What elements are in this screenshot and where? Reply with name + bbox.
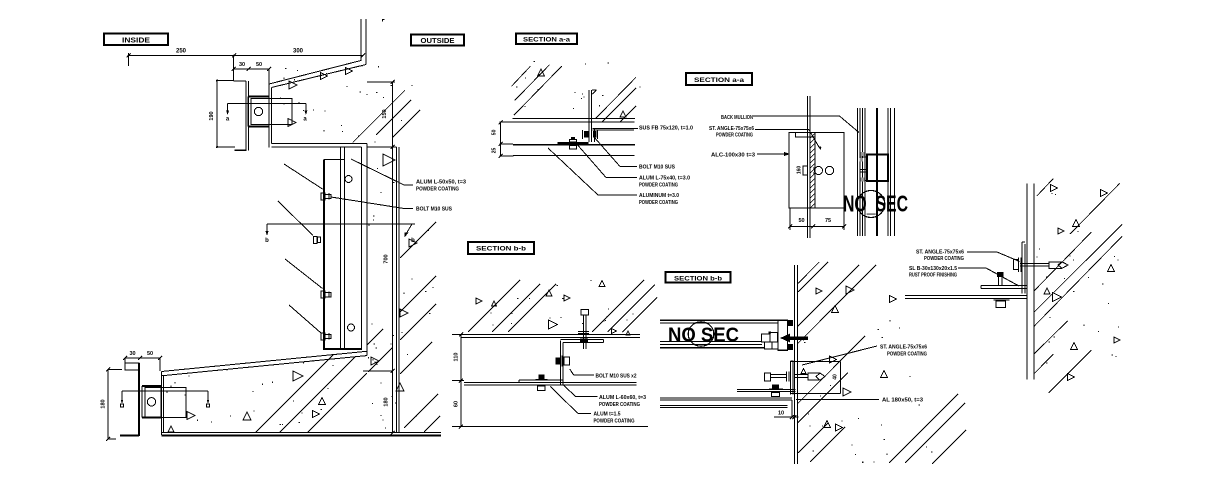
svg-text:BACK MULLION: BACK MULLION <box>721 115 753 121</box>
sloped soffit line <box>161 351 366 376</box>
svg-text:75: 75 <box>825 218 831 224</box>
label ALUM L-75 <box>639 176 690 189</box>
hanger plate a-a <box>589 90 597 142</box>
svg-text:ALC-100x30 t=3: ALC-100x30 t=3 <box>711 153 755 159</box>
svg-text:180: 180 <box>101 399 107 408</box>
sheet fr <box>905 295 1027 298</box>
slab line b-b <box>461 335 640 338</box>
leader SUS FB <box>596 128 637 130</box>
vertical dimension 150/700/180 right <box>363 80 395 435</box>
hatch wall bb <box>798 262 966 464</box>
svg-text:SECTION a-a: SECTION a-a <box>694 77 744 84</box>
section cut a-a top <box>226 104 308 123</box>
section cut b-b line <box>265 224 415 244</box>
svg-text:50: 50 <box>798 218 804 224</box>
panel frame <box>272 144 367 356</box>
hatch wall fr <box>1034 179 1122 393</box>
lower sheet b-b <box>464 383 637 386</box>
leader ALUM L-60 <box>563 385 597 397</box>
svg-text:50: 50 <box>492 129 498 135</box>
svg-text:ALUM L-60x60, t=3: ALUM L-60x60, t=3 <box>599 395 646 401</box>
bolt M10 panel 1 <box>321 193 331 200</box>
svg-text:OUTSIDE: OUTSIDE <box>421 38 455 45</box>
label ALUMINUM <box>639 193 679 206</box>
bottom slab line <box>161 433 441 436</box>
label box INSIDE <box>104 34 168 46</box>
fascia lines bb <box>660 342 765 348</box>
dimension 250/300 <box>127 49 366 67</box>
bottom bracket <box>142 386 186 418</box>
NO_SEC ellipse 2 <box>688 322 714 346</box>
sheet bolt b-b <box>536 375 548 391</box>
lower bracket bb <box>737 385 795 397</box>
top break mark <box>382 19 385 22</box>
label ST ANGLE fr <box>916 250 964 263</box>
dim 50/75 plan <box>788 208 846 230</box>
svg-text:30: 30 <box>239 62 245 68</box>
black arrow bb <box>780 334 808 343</box>
svg-text:POWDER COATING: POWDER COATING <box>594 419 635 425</box>
svg-text:ALUM L-50x50, t=3: ALUM L-50x50, t=3 <box>416 180 466 186</box>
fr triangles <box>1044 185 1120 381</box>
bottom line b-b <box>461 426 648 428</box>
dimension 30/50 bottom <box>123 351 162 371</box>
angle plate plan <box>789 133 844 209</box>
svg-text:b: b <box>265 238 269 244</box>
svg-text:10: 10 <box>778 411 784 417</box>
dots slab a-a <box>516 61 640 109</box>
svg-text:NO_SEC: NO_SEC <box>843 191 908 217</box>
svg-text:SECTION b-b: SECTION b-b <box>476 246 526 253</box>
label SL B-30 fr <box>909 266 957 279</box>
svg-text:AL 180x50, t=3: AL 180x50, t=3 <box>882 398 923 404</box>
clip triangle bottom bracket <box>187 412 195 420</box>
hanger bolt b-b <box>578 310 589 350</box>
dim 10 bb <box>774 400 799 419</box>
label SUS FB <box>639 126 693 132</box>
post bolt b-b <box>556 356 570 367</box>
vertical dim 110/60 <box>452 333 464 429</box>
label BOLT M10 a-a <box>639 165 675 171</box>
label ALC <box>711 153 755 159</box>
bolt plan <box>803 166 834 175</box>
label box SECTION b-b 1 <box>468 242 534 254</box>
svg-text:POWDER COATING: POWDER COATING <box>416 187 459 193</box>
slab soffit line a-a <box>513 118 635 120</box>
interior board top <box>234 56 249 151</box>
leader ALUM t15 <box>550 387 591 414</box>
wall bb triangles <box>801 286 897 431</box>
panel hatch strip <box>735 133 885 208</box>
svg-text:SECTION a-a: SECTION a-a <box>523 37 570 44</box>
svg-text:POWDER COATING: POWDER COATING <box>924 256 964 262</box>
fascia top bb <box>660 320 778 323</box>
svg-text:SUS FB 75x120, t=1.0: SUS FB 75x120, t=1.0 <box>639 126 693 132</box>
svg-text:POWDER COATING: POWDER COATING <box>716 133 753 139</box>
soffit triangles <box>168 371 326 432</box>
svg-text:110: 110 <box>454 353 460 362</box>
coping triangles <box>321 68 353 80</box>
upper bolt fr <box>997 272 1004 286</box>
leader ALUM L-75 <box>575 142 637 178</box>
svg-text:50: 50 <box>147 351 153 357</box>
label AL 180 <box>882 398 923 404</box>
svg-text:POWDER COATING: POWDER COATING <box>639 183 678 189</box>
concrete dots parapet <box>280 65 413 142</box>
sheets bb <box>660 398 792 408</box>
wall triangles 2 <box>371 239 417 391</box>
circle hole upper <box>345 176 352 183</box>
svg-text:40: 40 <box>833 374 839 380</box>
svg-text:160: 160 <box>797 166 803 175</box>
svg-text:300: 300 <box>293 49 304 55</box>
bolt M10 panel 3 <box>321 291 331 298</box>
svg-text:BOLT M10 SUS: BOLT M10 SUS <box>416 207 452 213</box>
label ST ANGLE aa <box>709 126 754 139</box>
svg-text:BOLT M10 SUS: BOLT M10 SUS <box>639 165 675 171</box>
label ALUM L-60 <box>599 395 646 408</box>
label ST ANGLE bb <box>880 345 927 358</box>
clip triangle under coping <box>289 81 297 89</box>
svg-text:POWDER COATING: POWDER COATING <box>887 352 927 358</box>
label box OUTSIDE <box>411 35 464 46</box>
wall lines bb <box>794 265 797 464</box>
leader ST ANGLE fr <box>967 252 1020 262</box>
fascia verticals <box>269 84 272 148</box>
wall lines fr <box>1027 184 1034 380</box>
slab triangles a-a <box>538 69 627 117</box>
svg-text:60: 60 <box>454 401 460 407</box>
label BOLT M10 SUS left <box>331 197 452 213</box>
sheet top line a-a <box>500 121 635 123</box>
circle hole lower <box>348 324 355 331</box>
bolt leader lines <box>278 164 323 333</box>
leader ALUMINUM <box>548 148 637 195</box>
leader BACK MULLION <box>753 116 859 133</box>
dimension 30/50 top <box>232 62 272 84</box>
NO_SEC text 1 <box>843 191 908 217</box>
svg-text:25: 25 <box>492 148 498 154</box>
leader AL 180 <box>796 398 879 400</box>
svg-text:ST. ANGLE-75x75x6: ST. ANGLE-75x75x6 <box>709 126 754 132</box>
svg-text:BOLT M10 SUS x2: BOLT M10 SUS x2 <box>596 373 637 379</box>
svg-text:30: 30 <box>129 351 135 357</box>
soffit left edge <box>161 372 163 436</box>
concrete dots soffit <box>167 357 376 425</box>
leader SL B-30 fr <box>958 268 1019 286</box>
leader ST ANGLE bb <box>802 346 877 365</box>
clip triangle top bracket <box>288 119 296 127</box>
leader BOLT x2 <box>570 369 594 375</box>
svg-text:50: 50 <box>256 62 262 68</box>
coping <box>269 19 366 88</box>
label ALUM t15 <box>594 412 635 425</box>
NO_SEC text 2 <box>668 325 739 347</box>
hatch slab b-b <box>468 280 657 332</box>
svg-text:700: 700 <box>384 254 390 263</box>
section cut a-a bottom <box>121 391 210 407</box>
top bracket <box>248 97 292 127</box>
dots slab b-b <box>491 280 634 326</box>
label box SECTION b-b 2 <box>666 272 731 283</box>
svg-text:SL B-30x130x20x1.5: SL B-30x130x20x1.5 <box>909 266 957 272</box>
anchor plate fr <box>1022 242 1025 294</box>
nut below fr <box>994 300 1010 308</box>
svg-text:180: 180 <box>384 397 390 406</box>
bolt angle a-a <box>569 137 576 149</box>
leader ST ANGLE aa <box>755 130 822 150</box>
bolt M10 panel 2 (small) <box>314 236 321 243</box>
label ALUM L-50x50 <box>351 159 466 193</box>
anchor bolt bb <box>765 372 826 382</box>
vertical dimension 180 left <box>101 368 123 442</box>
svg-text:NO SEC: NO SEC <box>668 325 739 347</box>
label BOLT x2 <box>596 373 637 379</box>
panel lines plan <box>808 96 815 238</box>
svg-text:ALUM L-75x40, t=3.0: ALUM L-75x40, t=3.0 <box>639 176 690 182</box>
bolt M10 panel 4 <box>321 333 331 340</box>
svg-text:ST. ANGLE-75x75x6: ST. ANGLE-75x75x6 <box>916 250 964 256</box>
dots wall fr <box>1036 193 1119 363</box>
angle leg a-a <box>593 129 638 143</box>
leader ALC <box>757 152 791 156</box>
dim 160 label <box>797 166 803 175</box>
label BACK MULLION <box>721 115 753 121</box>
fascia end clips bb <box>762 320 793 350</box>
post b-b <box>561 339 604 384</box>
dim 40 bb <box>791 356 851 396</box>
interior board bottom <box>120 363 139 436</box>
wall face <box>367 147 399 433</box>
NO_SEC ellipse 1 <box>857 191 885 218</box>
svg-text:250: 250 <box>176 49 187 55</box>
wall triangle 1 <box>383 154 395 166</box>
svg-text:POWDER COATING: POWDER COATING <box>599 402 640 408</box>
fascia sheet thick a-a <box>513 144 635 146</box>
sheet bottom line a-a <box>513 154 635 156</box>
svg-text:190: 190 <box>209 111 215 120</box>
svg-text:RUST PROOF FINISHING: RUST PROOF FINISHING <box>909 272 957 278</box>
hatch slab a-a <box>512 65 637 122</box>
svg-text:INSIDE: INSIDE <box>122 38 150 45</box>
bolt plate a-a <box>583 130 598 139</box>
svg-text:ALUMINUM t=3.0: ALUMINUM t=3.0 <box>639 193 679 199</box>
leader BOLT M10 a-a <box>594 137 637 167</box>
mullion clip <box>860 152 889 182</box>
vertical dimension 190 <box>209 80 235 149</box>
lower angle leg b-b <box>519 380 564 383</box>
angle leg thick a-a <box>558 142 589 144</box>
angle leg fr <box>981 285 1027 288</box>
hatch lines concrete sparse <box>255 90 440 433</box>
dots wall bb <box>803 320 933 463</box>
concrete dots wall <box>368 168 437 429</box>
mullion lines <box>858 108 895 236</box>
label box SECTION a-a 1 <box>516 34 577 45</box>
slab triangles b-b <box>476 281 630 336</box>
svg-text:ALUM t=1.5: ALUM t=1.5 <box>594 412 621 418</box>
anchor plate bb <box>791 361 794 395</box>
svg-text:POWDER COATING: POWDER COATING <box>639 200 678 206</box>
vertical dim 50/25 a-a <box>492 120 514 158</box>
label box SECTION a-a 2 <box>686 73 752 85</box>
anchor bolt fr <box>1014 258 1069 273</box>
svg-text:SECTION b-b: SECTION b-b <box>674 275 722 282</box>
svg-text:ST. ANGLE-75x75x6: ST. ANGLE-75x75x6 <box>880 345 927 351</box>
